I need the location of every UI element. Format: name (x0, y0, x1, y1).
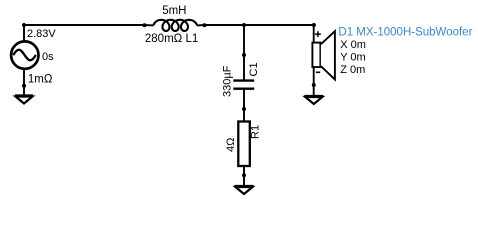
ground (left) (15, 96, 33, 104)
ground (middle) (235, 186, 254, 194)
node rail-capacitor junction (242, 23, 246, 27)
wire top rail middle segment (205, 24, 315, 26)
inductor L1 (145, 20, 205, 31)
svg-text:0s: 0s (42, 51, 54, 63)
svg-text:Y 0m: Y 0m (340, 51, 365, 63)
wire top rail left segment (24, 24, 145, 26)
svg-text:2.83V: 2.83V (27, 28, 56, 40)
svg-text:X 0m: X 0m (340, 39, 366, 51)
svg-text:330µF: 330µF (221, 65, 233, 97)
node rail right end / speaker pin 1 (312, 23, 316, 27)
capacitor C1 (233, 81, 254, 89)
svg-text:Z 0m: Z 0m (340, 64, 365, 76)
svg-text:D1 MX-1000H-SubWoofer: D1 MX-1000H-SubWoofer (338, 27, 472, 39)
node rail-source junction (22, 23, 26, 27)
svg-text:1mΩ: 1mΩ (28, 73, 53, 85)
speaker D1 (312, 31, 335, 79)
node speaker pin 2 (312, 83, 316, 87)
wire capacitor branch upper (243, 25, 245, 80)
node inductor pin 2 (203, 23, 207, 27)
node source ground pin (22, 84, 26, 88)
svg-text:C1: C1 (248, 62, 260, 76)
node capacitor pin 1 (242, 53, 246, 57)
resistor R1 (238, 122, 250, 167)
wire capacitor to resistor (243, 89, 245, 122)
svg-text:280mΩ L1: 280mΩ L1 (145, 33, 198, 45)
svg-text:4Ω: 4Ω (225, 138, 237, 152)
node capacitor pin 2 / resistor pin 1 (242, 107, 246, 111)
wire resistor to ground (243, 166, 245, 186)
ground (right) (304, 96, 323, 104)
voltage source V1 (11, 41, 38, 68)
wire source branch upper (23, 25, 25, 41)
wire speaker to ground (313, 66, 315, 96)
node inductor pin 1 (143, 23, 147, 27)
node resistor pin 2 (242, 173, 246, 177)
wire speaker branch upper (313, 25, 315, 43)
wire source branch lower (23, 70, 25, 96)
svg-text:5mH: 5mH (162, 5, 186, 17)
svg-text:R1: R1 (249, 125, 261, 139)
